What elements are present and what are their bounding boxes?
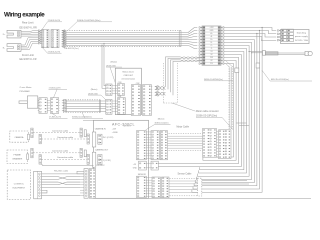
svg-text:MOTOR: MOTOR xyxy=(124,126,132,128)
wire stub left of AFC top corner xyxy=(83,119,94,121)
cable narrow dashed conduit to motor cable connector xyxy=(226,61,233,130)
svg-text:(Orientalmotor): (Orientalmotor) xyxy=(122,78,136,81)
fork terminals TB1 left xyxy=(199,27,202,65)
svg-text:A+: A+ xyxy=(210,32,212,35)
connector sensor cable end dashed xyxy=(198,178,202,196)
connection cable camera 2 xyxy=(41,138,87,140)
svg-text:CAMERA IN: CAMERA IN xyxy=(95,128,107,131)
svg-text:EQUIPMENT: EQUIPMENT xyxy=(13,187,26,189)
svg-text:power supply: power supply xyxy=(295,35,309,38)
svg-text:(Motor): (Motor) xyxy=(158,117,165,120)
svg-text:B+: B+ xyxy=(210,39,212,41)
wire motor M1 to connector CP3 xyxy=(38,100,39,110)
camera box xyxy=(10,131,30,142)
wire sensor S1 to connector CP1 xyxy=(21,31,39,36)
connection cable grabber 2 xyxy=(41,158,87,160)
svg-text:EE-SX674 L RR: EE-SX674 L RR xyxy=(20,26,37,29)
connector CN3 socket (inside driver) xyxy=(118,84,125,96)
svg-text:GRABBER: GRABBER xyxy=(12,157,23,160)
fork terminals CP1 left xyxy=(39,30,42,44)
wire sensor S2 to connector CP1 xyxy=(21,38,39,50)
motor driver U1 CRD5107 box xyxy=(115,68,141,114)
wires inside cable C2 to connector CN1 xyxy=(66,101,106,111)
connector aux pair inside AFC xyxy=(139,161,147,170)
wires forks into RS-232C socket xyxy=(80,174,84,196)
sensor S1 rear limit photo-interrupter xyxy=(7,30,21,38)
power supply PS1 switching DC24V 15A xyxy=(281,29,310,43)
fork terminals CN2 right + twisted pairs xyxy=(151,86,165,97)
svg-text:Sensor Cable: Sensor Cable xyxy=(178,173,193,176)
motor M1 Z axis PK545AW xyxy=(19,96,38,108)
svg-text:Motor driver: Motor driver xyxy=(122,70,134,73)
fork terminals CP3 right xyxy=(59,99,66,111)
connector camera cable 1 end xyxy=(31,128,33,138)
connector CP3 socket (cable side) xyxy=(50,98,58,114)
cable C2 motor bundle jacket xyxy=(63,100,101,113)
svg-text:Motor Cable: Motor Cable xyxy=(177,126,190,129)
svg-text:CN1: CN1 xyxy=(118,96,122,98)
connector CP1 socket (cable side) xyxy=(51,30,59,48)
connector sensor-out inside AFC xyxy=(137,176,147,197)
connector sensor cable plug A xyxy=(152,177,161,198)
cable sensor dashed jacket xyxy=(169,179,198,196)
svg-text:RS-232C: RS-232C xyxy=(97,165,106,167)
fork terminals PS1 xyxy=(278,30,281,41)
cable motor dashed jacket to connector xyxy=(168,134,205,151)
controller AFC-300CL box xyxy=(94,120,149,198)
svg-text:Connection cable: Connection cable xyxy=(57,156,74,159)
connector RS-232C socket at AFC xyxy=(84,169,88,199)
wires TB1 to power supply PS1 xyxy=(224,28,276,41)
cable C1 sensor bundle jacket xyxy=(62,30,181,46)
svg-text:Switching: Switching xyxy=(297,32,307,35)
fork terminals TB1 right xyxy=(221,27,224,65)
connector motor cable plug A xyxy=(151,131,159,160)
svg-text:(Motor): (Motor) xyxy=(111,61,118,64)
sensor S2 front limit photo-interrupter xyxy=(7,44,21,52)
svg-text:CRD5107: CRD5107 xyxy=(123,75,133,77)
connector CP3 plug (motor side) xyxy=(39,98,47,114)
connector motor cable right D xyxy=(219,130,232,159)
AC power cord with plug xyxy=(263,51,313,56)
svg-text:IN 1 (CCIR): IN 1 (CCIR) xyxy=(103,137,114,139)
wire bundle driver CN2 up to terminal strip xyxy=(166,57,201,95)
connector CN2 plug (outside driver) xyxy=(143,85,152,116)
svg-text:CN3: CN3 xyxy=(118,82,122,84)
connector grabber cable 2 end xyxy=(39,155,41,165)
wire bundle descending right side with nested loops xyxy=(158,27,262,192)
svg-text:CAMERA: CAMERA xyxy=(14,136,24,139)
wires sensor cable end to bundle xyxy=(202,180,247,182)
svg-text:DC24V / 15A: DC24V / 15A xyxy=(295,39,308,42)
wire branch drops from cable C1 to driver connector CN3 xyxy=(101,43,105,88)
connection cable grabber 1 xyxy=(33,152,80,154)
wires CN3 gap xyxy=(112,86,118,94)
wire FG ground long line xyxy=(42,164,94,166)
connector CN1 plug (outside driver) xyxy=(106,99,112,114)
cable clamp markers on bundle xyxy=(235,68,239,73)
svg-text:(Motor): (Motor) xyxy=(91,88,98,91)
svg-text:EE-SX674 (1m): EE-SX674 (1m) xyxy=(65,48,79,50)
fork terminals CP1 right xyxy=(62,30,65,48)
connector camera cable 2 end xyxy=(39,134,41,144)
connector camera-in cluster on AFC left edge xyxy=(80,128,102,147)
wire AC feed lines xyxy=(249,51,263,54)
wires C-D gap xyxy=(217,131,219,157)
wires RS-232C with crossover xyxy=(42,174,81,196)
svg-text:Motor cable connector: Motor cable connector xyxy=(196,110,219,113)
wires CN1 gap xyxy=(112,101,118,111)
connector sensor cable plug B xyxy=(162,177,170,198)
svg-text:Front Limit: Front Limit xyxy=(22,54,34,57)
svg-text:Z axis Motor: Z axis Motor xyxy=(20,86,32,89)
jumper on AFC RS-232C connector xyxy=(77,171,84,174)
connector motor-out inside AFC xyxy=(137,131,147,160)
connector grabber cable 1 end xyxy=(31,148,33,158)
svg-text:Z+: Z+ xyxy=(210,45,212,47)
bottom frame line xyxy=(93,197,311,199)
control equipment box xyxy=(7,170,30,200)
connector CN3 plug (outside driver) xyxy=(106,84,112,95)
wires aux gap xyxy=(146,162,151,164)
connector CN1 socket (inside driver) xyxy=(118,98,126,115)
wires cable C1 fan-out to terminal strip TB1 xyxy=(181,28,197,49)
frame grabber box xyxy=(7,150,29,164)
svg-text:Connection cable: Connection cable xyxy=(57,136,74,139)
connector D-sub control equipment xyxy=(34,171,42,199)
connector CN2 socket (inside driver) xyxy=(131,85,140,116)
svg-text:Connection cable: Connection cable xyxy=(52,150,69,153)
wire stubs joining bundle above motor cable connector xyxy=(236,122,246,124)
svg-text:FRAME: FRAME xyxy=(14,153,22,156)
wires sensor-out gap xyxy=(146,178,152,197)
svg-text:Connection cable: Connection cable xyxy=(52,130,69,133)
svg-text:S1: S1 xyxy=(210,51,212,53)
svg-text:S2: S2 xyxy=(210,54,212,56)
svg-text:CAMERA OUT: CAMERA OUT xyxy=(95,149,109,152)
svg-text:Rear Limit: Rear Limit xyxy=(22,22,34,25)
svg-text:PK545AW: PK545AW xyxy=(20,90,31,93)
terminal strip TB1 xyxy=(202,26,221,65)
wires CP3 gap xyxy=(47,100,50,110)
svg-text:EE-SX674 L FR: EE-SX674 L FR xyxy=(20,58,37,61)
svg-text:SENSOR: SENSOR xyxy=(138,174,147,176)
svg-text:RS-232C cable: RS-232C cable xyxy=(54,171,69,173)
wires inside cable C1 xyxy=(62,31,181,46)
svg-text:N-: N- xyxy=(3,47,5,49)
svg-text:CONTROL: CONTROL xyxy=(14,183,25,185)
svg-text:+5GND: +5GND xyxy=(112,132,119,134)
connection cable camera 1 xyxy=(33,132,80,134)
svg-text:GND: GND xyxy=(133,167,138,169)
connector RS-232C plug at AFC edge xyxy=(89,169,95,199)
connector camera-out cluster on AFC left edge xyxy=(80,148,102,167)
label Motor cable connector 30306-G5-10P xyxy=(172,103,196,111)
connector motor cable plug B xyxy=(160,131,167,160)
svg-text:OUT 1 (CCIR): OUT 1 (CCIR) xyxy=(98,160,111,162)
connector CP1 plug (sensor side) xyxy=(42,30,50,48)
svg-text:Wiring example: Wiring example xyxy=(4,12,45,19)
cable jacket dashed around CN2 bundle xyxy=(164,63,178,103)
connector motor cable right C xyxy=(203,129,217,158)
wires motor-out gap xyxy=(146,132,151,159)
